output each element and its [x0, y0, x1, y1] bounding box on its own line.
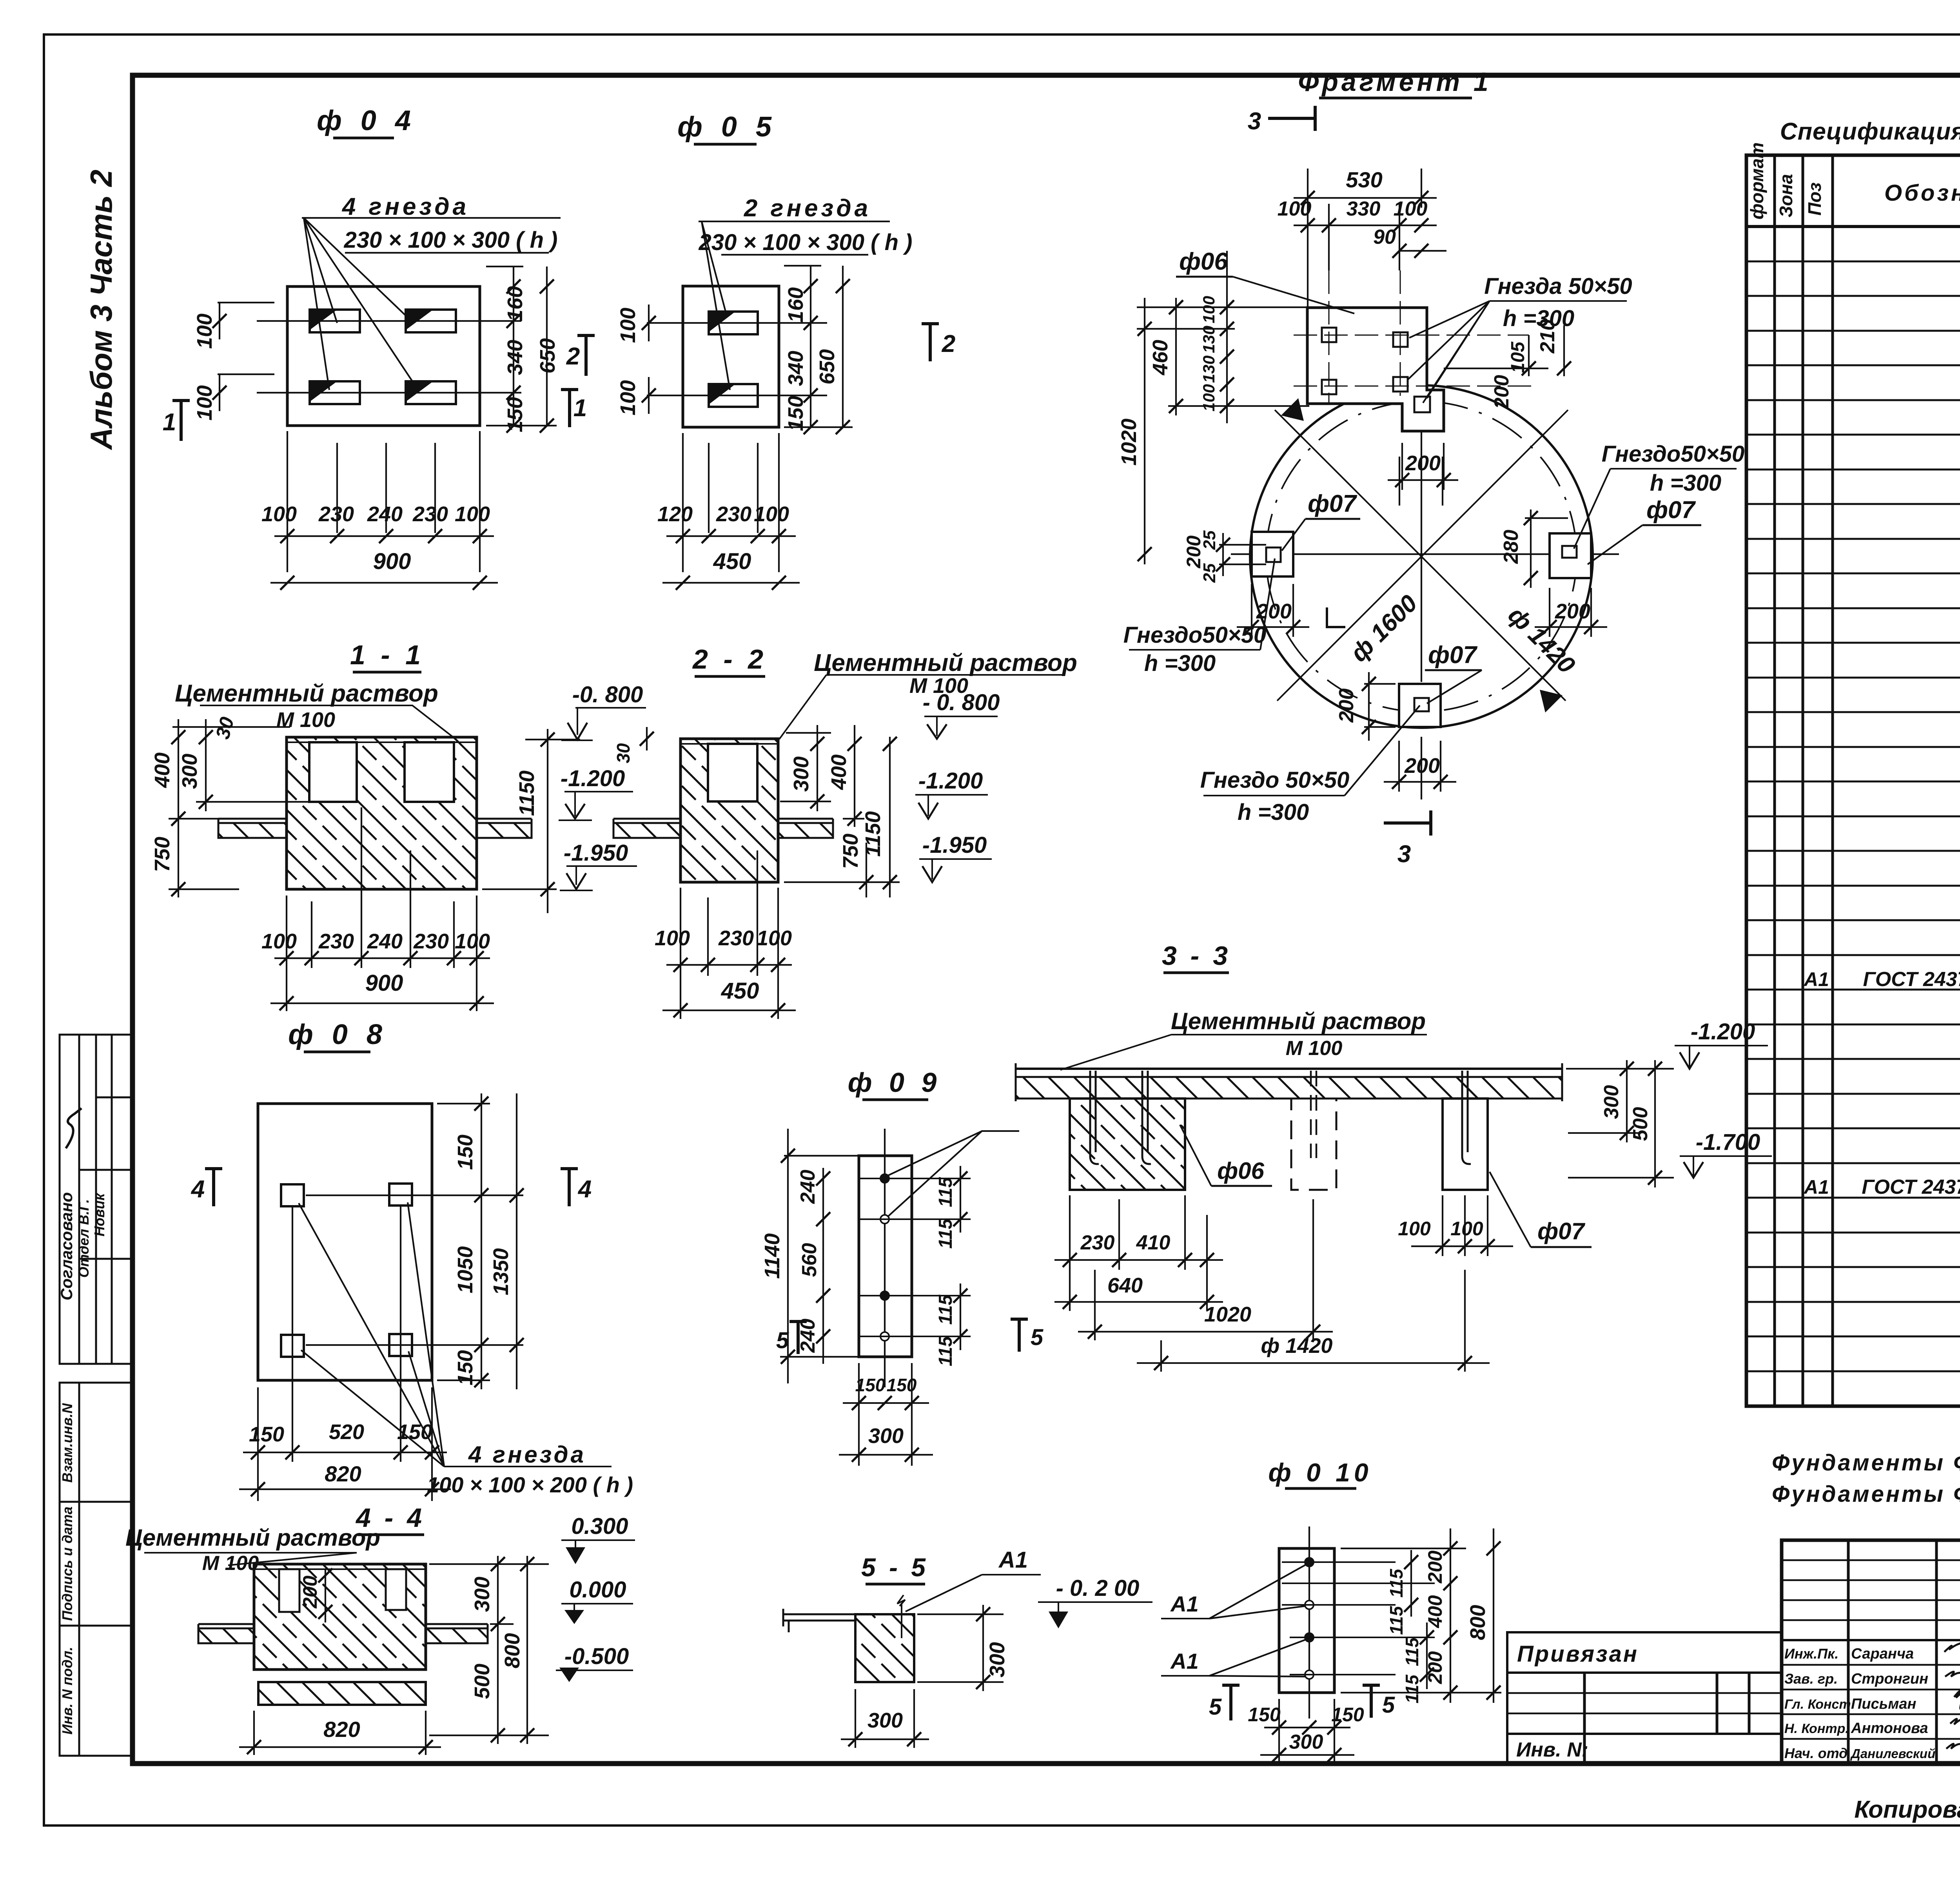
svg-text:h =300: h =300: [1144, 651, 1216, 676]
svg-text:Антонова: Антонова: [1851, 1720, 1928, 1737]
svg-text:ф 0 5: ф 0 5: [677, 111, 777, 143]
signature squiggles: [1944, 1643, 1960, 1750]
svg-text:ф06: ф06: [1217, 1158, 1264, 1184]
FO9 right dims 115 x4: [953, 1166, 967, 1350]
FO4 section flag 2 right: [577, 334, 595, 376]
svg-text:ф 0 8: ф 0 8: [288, 1019, 388, 1050]
svg-text:210: 210: [1536, 319, 1559, 354]
5-5 right dim 300: [917, 1605, 1004, 1691]
svg-text:100: 100: [455, 502, 490, 526]
svg-text:150: 150: [503, 397, 527, 432]
dim left chain 100/130/130/100 + 460 + 1020: [1137, 251, 1313, 564]
FO5 socket bottom: [709, 384, 758, 407]
3-3 foundation FO7 block: [1443, 1099, 1488, 1190]
svg-text:150: 150: [454, 1350, 477, 1385]
dim 530 top: [1294, 169, 1446, 314]
svg-text:450: 450: [713, 549, 751, 574]
svg-text:1050: 1050: [454, 1246, 477, 1293]
svg-text:1350: 1350: [489, 1248, 513, 1295]
FO4 socket top-right: [406, 310, 456, 332]
floor slab right of 1-1: [477, 819, 532, 838]
FO5 section flag 1 left: [561, 388, 578, 427]
FO4 leader fan to sockets: [304, 218, 416, 390]
svg-text:160: 160: [503, 286, 527, 321]
FO8 socket top-left: [281, 1184, 304, 1206]
svg-text:200: 200: [1424, 1550, 1446, 1584]
svg-text:Инж.Пк.: Инж.Пк.: [1784, 1646, 1838, 1662]
3-3 bottom dim chains 230/410, 640, 1020, ф1420: [1054, 1195, 1490, 1372]
svg-text:Согласовано: Согласовано: [57, 1192, 76, 1300]
svg-text:-1.950: -1.950: [922, 832, 987, 858]
FO7 anchor bolt: [1462, 1071, 1471, 1164]
svg-text:Цементный раствор: Цементный раствор: [814, 649, 1077, 676]
svg-text:Нач. отд: Нач. отд: [1784, 1745, 1847, 1761]
svg-text:4: 4: [577, 1176, 592, 1203]
L mark: [1327, 607, 1345, 627]
svg-text:А1: А1: [1803, 968, 1829, 990]
svg-text:-1.200: -1.200: [561, 766, 625, 791]
svg-text:А1: А1: [1170, 1649, 1199, 1673]
svg-text:230: 230: [318, 502, 354, 526]
FO9 left dim chains 1140 / 240 560 240: [780, 1129, 860, 1383]
svg-text:330: 330: [1347, 198, 1381, 220]
level mark -0.200 (5-5): [1038, 1602, 1152, 1628]
FO6 socket b: [1393, 332, 1408, 347]
foundation plan FO9 outline: [859, 1156, 912, 1357]
FO6 socket a: [1322, 328, 1336, 342]
level mark 0.000 (4-4): [561, 1604, 633, 1624]
svg-text:Альбом 3 Часть 2: Альбом 3 Часть 2: [84, 170, 118, 450]
left stamp block 2 (Взам.инв / Подпись / Инв): [60, 1383, 132, 1756]
FO7 pad bottom: [1399, 684, 1441, 727]
svg-text:230 × 100 × 300 ( h ): 230 × 100 × 300 ( h ): [344, 227, 558, 253]
svg-text:Данилевский: Данилевский: [1850, 1746, 1935, 1761]
svg-text:115: 115: [935, 1177, 956, 1207]
svg-text:5: 5: [1031, 1325, 1044, 1350]
svg-text:ф 0 4: ф 0 4: [317, 105, 416, 136]
svg-text:30: 30: [613, 743, 633, 763]
svg-text:h =300: h =300: [1238, 799, 1309, 825]
svg-text:Инв. N подл.: Инв. N подл.: [59, 1647, 75, 1735]
svg-text:130: 130: [1200, 326, 1218, 353]
privyazan block: [1507, 1632, 1782, 1762]
svg-text:Фрагмент 1: Фрагмент 1: [1298, 67, 1491, 97]
svg-text:240: 240: [367, 502, 403, 526]
svg-text:150: 150: [454, 1135, 477, 1170]
svg-text:100: 100: [1398, 1218, 1431, 1240]
svg-text:5 - 5: 5 - 5: [861, 1553, 929, 1582]
3-3 dims 100/100 at right block: [1411, 1195, 1513, 1256]
svg-text:-1.200: -1.200: [918, 768, 983, 794]
level mark -1.950 (1-1): [560, 866, 637, 890]
svg-text:115: 115: [935, 1218, 956, 1249]
FO9 section flag 5 right: [1011, 1318, 1028, 1352]
4-4 right dim chains 300/800/500: [429, 1556, 549, 1744]
FO4 left dim 100 top: [219, 303, 220, 339]
FO5 axis lines: [647, 322, 827, 324]
svg-text:Обозначение: Обозначение: [1884, 180, 1960, 206]
FO5 socket fill marks: [709, 312, 735, 332]
section 4-4 concrete block: [254, 1564, 426, 1670]
signature in stamp 1: [66, 1108, 82, 1148]
svg-text:230: 230: [1080, 1231, 1115, 1254]
svg-text:460: 460: [1149, 340, 1172, 375]
svg-text:Взам.инв.N: Взам.инв.N: [59, 1403, 75, 1483]
svg-text:160: 160: [784, 287, 808, 323]
svg-text:820: 820: [323, 1717, 360, 1742]
FO8 section flag 4 right: [561, 1167, 578, 1206]
svg-text:Подпись и дата: Подпись и дата: [59, 1506, 75, 1621]
svg-text:Гнезда 50×50: Гнезда 50×50: [1484, 274, 1632, 299]
3-3 foundation FO6 block: [1070, 1099, 1185, 1190]
FO8 socket top-right: [389, 1184, 412, 1206]
svg-text:400: 400: [1424, 1595, 1446, 1628]
svg-text:800: 800: [1466, 1605, 1490, 1640]
FO8 bottom extensions + dims 150/520/150 + 820: [239, 1206, 451, 1501]
svg-text:150: 150: [1248, 1704, 1281, 1726]
level mark -0.800 (1-1): [561, 708, 646, 740]
svg-text:Н. Контр.: Н. Контр.: [1784, 1721, 1849, 1736]
svg-text:Цементный раствор: Цементный раствор: [1171, 1008, 1426, 1034]
svg-text:Гнездо 50×50: Гнездо 50×50: [1200, 767, 1350, 793]
svg-text:2 гнезда: 2 гнезда: [744, 195, 871, 222]
svg-text:ф06: ф06: [1179, 248, 1228, 275]
svg-text:Привязан: Привязан: [1517, 1641, 1639, 1667]
svg-text:ф07: ф07: [1646, 497, 1696, 524]
svg-text:410: 410: [1136, 1231, 1171, 1254]
foundation plan FO8 outline: [258, 1104, 432, 1380]
svg-text:520: 520: [329, 1420, 364, 1444]
horizontal centerline: [1231, 553, 1252, 555]
FO4 socket top-left: [310, 310, 360, 332]
svg-text:115: 115: [935, 1294, 956, 1325]
floor line left of 5-5: [783, 1609, 855, 1632]
axis circle ф1420 dash-dot: [1266, 401, 1577, 712]
svg-text:750: 750: [839, 834, 862, 869]
tank circle ф1600: [1250, 385, 1593, 728]
FO5 left dims 100: [648, 305, 650, 341]
svg-text:120: 120: [657, 502, 693, 526]
svg-text:90: 90: [1373, 226, 1396, 248]
svg-text:ГОСТ 24379.1- 80: ГОСТ 24379.1- 80: [1863, 968, 1960, 991]
3-3 hidden foundation (dashed): [1291, 1099, 1336, 1190]
svg-text:4 гнезда: 4 гнезда: [468, 1441, 586, 1468]
svg-text:100 × 100 × 200 ( h ): 100 × 100 × 200 ( h ): [427, 1472, 633, 1497]
FO8 socket bottom-left: [281, 1335, 304, 1357]
svg-text:ф 0 10: ф 0 10: [1268, 1458, 1372, 1487]
FO10 bottom dims 150/150 + 300: [1260, 1699, 1354, 1764]
2-2 bottom extensions and chains: [680, 888, 681, 1019]
FO10 anchor bolts: [1282, 1558, 1435, 1679]
svg-text:Гл. Конст: Гл. Конст: [1784, 1697, 1851, 1712]
svg-text:2 - 2: 2 - 2: [692, 644, 767, 674]
svg-text:750: 750: [151, 837, 174, 872]
FO6 socket c: [1322, 380, 1336, 394]
svg-text:Копировал Подлевская: Копировал Подлевская: [1854, 1796, 1960, 1823]
svg-text:ф 0 9: ф 0 9: [848, 1067, 942, 1098]
svg-text:900: 900: [373, 549, 411, 574]
section mark 3 top: [1268, 106, 1315, 131]
svg-text:200: 200: [1335, 689, 1358, 723]
svg-text:150: 150: [1331, 1704, 1364, 1726]
svg-text:Инв. N:: Инв. N:: [1516, 1738, 1588, 1761]
svg-text:640: 640: [1107, 1274, 1143, 1297]
svg-text:ф07: ф07: [1428, 642, 1477, 669]
svg-text:2: 2: [942, 330, 955, 357]
FO8 right dim chains 150/1050/150 + 1350: [306, 1093, 524, 1389]
svg-text:5: 5: [776, 1328, 789, 1353]
svg-text:100: 100: [261, 930, 297, 953]
svg-text:130: 130: [1200, 355, 1218, 383]
svg-text:115: 115: [1402, 1674, 1422, 1704]
4-4 bottom dim 820: [239, 1711, 441, 1755]
FO8 section flag 4 left: [205, 1167, 222, 1206]
svg-text:М 100: М 100: [1286, 1037, 1343, 1060]
floor slab left of 4-4: [198, 1624, 254, 1643]
svg-text:820: 820: [325, 1461, 361, 1486]
title block frame: [1782, 1540, 1960, 1764]
svg-text:100: 100: [193, 314, 216, 349]
svg-text:0.300: 0.300: [571, 1514, 628, 1539]
svg-text:Фундаменты ФО9 .. ФО10 зама: Фундаменты ФО9 .. ФО10 замаркированы на …: [1772, 1481, 1960, 1507]
svg-text:300: 300: [789, 756, 813, 792]
svg-text:650: 650: [536, 338, 559, 373]
svg-text:3: 3: [1248, 108, 1261, 135]
FO5 section flag 2 right: [922, 322, 939, 361]
svg-text:150: 150: [784, 396, 808, 431]
svg-text:Поз: Поз: [1804, 182, 1825, 216]
level mark -1.200 (1-1): [559, 792, 633, 820]
FO4 right dim 650: [546, 266, 548, 426]
svg-text:800: 800: [501, 1633, 524, 1668]
svg-text:100: 100: [1200, 296, 1218, 323]
svg-text:4: 4: [191, 1176, 205, 1203]
svg-text:300: 300: [1289, 1731, 1323, 1753]
FO4 bottom dim 900: [270, 582, 498, 584]
svg-text:Стронгин: Стронгин: [1851, 1671, 1928, 1687]
svg-text:400: 400: [151, 752, 174, 788]
diagonal cross lines: [1275, 398, 1568, 712]
svg-text:Гнездо50×50: Гнездо50×50: [1602, 441, 1744, 467]
svg-text:-1.200: -1.200: [1691, 1019, 1755, 1044]
svg-text:200: 200: [1555, 600, 1590, 623]
svg-text:Отдел В.Г.: Отдел В.Г.: [76, 1199, 92, 1278]
level mark -0.500 (4-4): [556, 1668, 633, 1682]
svg-text:100: 100: [1200, 384, 1218, 412]
svg-text:200: 200: [1424, 1651, 1446, 1684]
svg-text:150: 150: [249, 1423, 284, 1446]
svg-text:ф07: ф07: [1537, 1218, 1585, 1244]
svg-text:-1.700: -1.700: [1696, 1129, 1760, 1155]
FO7 pad left: [1252, 532, 1293, 576]
svg-text:300: 300: [985, 1642, 1009, 1677]
svg-text:200: 200: [1183, 535, 1205, 569]
svg-text:200: 200: [1405, 451, 1441, 475]
svg-text:115: 115: [1402, 1637, 1422, 1666]
1-1 bottom extensions and chains: [286, 896, 287, 1011]
dim 200 under bottom pad: [1384, 741, 1456, 792]
svg-text:230 × 100 × 300 ( h ): 230 × 100 × 300 ( h ): [699, 230, 913, 255]
FO4 socket bottom-left: [310, 381, 360, 404]
level mark -0.800 (2-2): [924, 716, 998, 739]
svg-text:100: 100: [655, 926, 690, 950]
svg-text:100: 100: [757, 926, 792, 950]
svg-text:А1: А1: [998, 1547, 1028, 1573]
FO4 axis line bottom row: [257, 392, 521, 393]
svg-text:1020: 1020: [1204, 1303, 1251, 1326]
svg-text:h =300: h =300: [1650, 470, 1721, 496]
svg-text:200: 200: [299, 1575, 321, 1609]
FO4 section flag 1 left: [172, 399, 190, 441]
dim 200 under left pad: [1237, 584, 1309, 637]
foundation FO6 plan outline: [1307, 308, 1444, 431]
dim 200 left of bottom pad: [1362, 672, 1396, 741]
FO9 section flag 5 left: [789, 1320, 807, 1354]
FO4 socket fill marks: [310, 310, 337, 330]
2-2 right dim chains: [780, 801, 831, 802]
5-5 bottom dim 300: [841, 1689, 929, 1748]
FO4 socket bottom-right: [406, 381, 456, 404]
FO5 socket top: [709, 312, 758, 334]
floor slab right of 2-2: [778, 819, 833, 838]
svg-text:230: 230: [412, 502, 448, 526]
foundation plan FO4 outline: [287, 286, 480, 426]
FO9 anchor bolts: [859, 1174, 971, 1341]
svg-text:5: 5: [1382, 1692, 1395, 1718]
svg-text:100: 100: [1278, 198, 1312, 220]
svg-text:100: 100: [616, 308, 640, 343]
svg-text:ф07: ф07: [1308, 490, 1357, 517]
svg-text:1020: 1020: [1117, 419, 1141, 466]
svg-text:900: 900: [365, 970, 403, 996]
svg-text:200: 200: [1490, 375, 1513, 410]
section 2-2 concrete block: [681, 739, 778, 882]
svg-text:115: 115: [1386, 1568, 1406, 1598]
svg-text:Цементный раствор: Цементный раствор: [125, 1525, 380, 1551]
3-3 right dims 300/500: [1566, 1060, 1674, 1187]
dim 25/25 left pad: [1216, 533, 1266, 576]
svg-text:1: 1: [163, 409, 176, 436]
svg-text:1150: 1150: [515, 770, 539, 816]
svg-text:Спецификация фундаментов под: Спецификация фундаментов под оборудовани…: [1780, 118, 1960, 145]
left stamp block 1 (Согласовано): [60, 1035, 132, 1364]
FO6 anchor bolt b: [1142, 1071, 1151, 1164]
FO5 right dim chain 160/340/150: [784, 265, 821, 266]
svg-text:А1: А1: [1803, 1176, 1829, 1198]
foundation plan FO5 outline: [683, 286, 779, 427]
FO10 section flag 5 right: [1363, 1684, 1380, 1718]
svg-text:530: 530: [1346, 167, 1382, 192]
svg-text:формат: формат: [1747, 142, 1767, 219]
section 1-1 concrete block: [287, 737, 477, 889]
FO8 leader fan + label 4 гнезда 100x100x200(h): [299, 1202, 444, 1467]
level mark -1.700 (3-3): [1680, 1156, 1772, 1178]
3-3 floor slab band: [1016, 1063, 1562, 1101]
section mark 3 bottom: [1384, 810, 1431, 836]
svg-text:300: 300: [1600, 1085, 1623, 1119]
vertical centerline: [1421, 355, 1422, 682]
svg-text:Саранча: Саранча: [1851, 1646, 1914, 1662]
FO4 right dim chain 160/340/150: [486, 266, 523, 267]
svg-text:-0.500: -0.500: [564, 1644, 629, 1669]
FO7 pad top socket: [1414, 397, 1430, 412]
svg-text:340: 340: [503, 340, 527, 375]
svg-text:1 - 1: 1 - 1: [350, 640, 425, 670]
FO5 bottom chain 120/230/100: [666, 535, 796, 537]
svg-text:300: 300: [178, 754, 201, 789]
svg-text:- 0. 800: - 0. 800: [923, 690, 1000, 715]
FO6 socket d: [1393, 377, 1408, 392]
svg-text:Гнездо50×50: Гнездо50×50: [1123, 622, 1266, 648]
svg-text:100: 100: [616, 380, 640, 415]
svg-text:240: 240: [367, 930, 403, 953]
FO5 leader fan: [702, 221, 730, 390]
svg-text:230: 230: [716, 502, 751, 526]
svg-text:230: 230: [718, 926, 754, 950]
FO9 bottom dims 150/150 + 300: [839, 1363, 933, 1466]
svg-text:1140: 1140: [760, 1233, 784, 1279]
svg-text:100: 100: [455, 930, 490, 953]
svg-text:105: 105: [1508, 341, 1528, 373]
dim 200 above center: [1399, 457, 1443, 506]
FO6 anchor bolt a: [1090, 1071, 1099, 1164]
FO8 socket bottom-right: [389, 1334, 412, 1356]
svg-text:100: 100: [261, 502, 297, 526]
svg-text:0.000: 0.000: [569, 1577, 626, 1603]
dim 200 below top pad: [1388, 443, 1458, 490]
svg-text:100: 100: [1394, 198, 1428, 220]
svg-text:Зона: Зона: [1776, 174, 1796, 218]
svg-text:150: 150: [397, 1420, 432, 1444]
svg-text:3 - 3: 3 - 3: [1162, 941, 1231, 971]
svg-text:100: 100: [193, 385, 216, 421]
svg-text:3: 3: [1397, 841, 1411, 868]
anchor squiggle on 5-5: [897, 1595, 905, 1638]
dim 105/210 top right: [1444, 325, 1571, 376]
FO10 dims right 115 x4, 200/400/200, 800: [1341, 1528, 1501, 1703]
floor slab left of 2-2: [613, 819, 681, 838]
FO9 bolt leader fan: [887, 1131, 1019, 1217]
svg-text:230: 230: [318, 930, 354, 953]
svg-text:А1: А1: [1170, 1592, 1199, 1616]
svg-text:450: 450: [721, 978, 759, 1004]
svg-text:300: 300: [868, 1424, 904, 1448]
svg-text:150: 150: [887, 1375, 917, 1395]
svg-text:650: 650: [815, 349, 839, 384]
level mark -1.200 (2-2): [915, 795, 988, 819]
svg-text:300: 300: [867, 1709, 903, 1732]
FO4 left dim 100 bottom: [219, 374, 220, 411]
FO6 socket centerlines: [1294, 270, 1533, 404]
level mark 0.300 (4-4): [561, 1540, 635, 1564]
foundation plan FO10 outline: [1279, 1548, 1334, 1693]
FO5 bottom extensions: [682, 433, 684, 572]
svg-text:5: 5: [1209, 1694, 1222, 1720]
svg-text:200: 200: [1256, 600, 1292, 623]
FO7 pad right: [1550, 533, 1591, 578]
svg-text:1150: 1150: [861, 811, 885, 857]
FO4 axis line top row: [257, 320, 521, 322]
svg-text:ф 1420: ф 1420: [1261, 1334, 1333, 1358]
svg-text:240: 240: [797, 1170, 819, 1204]
svg-text:Новик: Новик: [91, 1193, 107, 1236]
section 5-5 block: [855, 1614, 914, 1682]
svg-text:М 100: М 100: [276, 708, 335, 732]
svg-text:115: 115: [935, 1336, 956, 1366]
svg-text:500: 500: [470, 1664, 494, 1699]
FO5 right dim 650: [842, 266, 844, 427]
FO4 bottom extension lines: [287, 431, 288, 572]
